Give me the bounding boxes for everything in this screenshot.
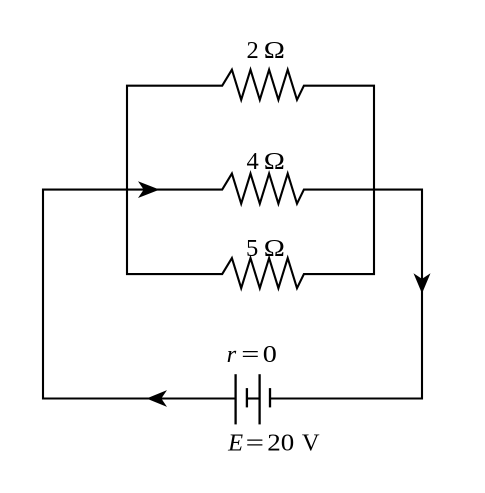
battery E plate 4 (short) [269,388,271,407]
wire: battery inner connector [247,397,260,399]
label R2 value 4 ohm [247,147,285,175]
label R3 value 5 ohm [246,234,285,262]
svg-text:r: r [227,341,237,368]
wire: inner parallel rectangle with R1 and R3 zigzags [127,70,374,289]
svg-text:0: 0 [263,340,277,368]
svg-text:=: = [241,341,259,368]
label internal resistance r = 0 [227,340,277,368]
svg-text:Ω: Ω [264,36,285,64]
svg-text:E: E [227,430,243,457]
svg-text:4: 4 [247,148,259,175]
wire: outer loop right (bottom-right wire, right vertical) [270,190,422,399]
svg-text:20: 20 [267,429,294,457]
label R1 value 2 ohm [247,36,285,64]
current arrow down (right vertical) [414,273,431,293]
current arrow left (bottom wire) [147,390,168,407]
battery E plate 3 (long) [258,374,260,424]
svg-text:Ω: Ω [264,147,285,175]
wire: outer loop left (bottom-left wire, left vertical, middle branch with R2 zigzag) [43,174,422,399]
svg-text:=: = [246,429,264,456]
current arrow right (middle branch) [138,181,160,198]
battery E plate 1 (long) [234,374,236,424]
battery E plate 2 (short) [246,388,248,407]
svg-text:V: V [302,430,320,457]
svg-text:5: 5 [246,235,258,262]
label EMF E = 20 V [227,429,320,457]
svg-text:Ω: Ω [264,234,285,262]
svg-text:2: 2 [247,37,259,64]
